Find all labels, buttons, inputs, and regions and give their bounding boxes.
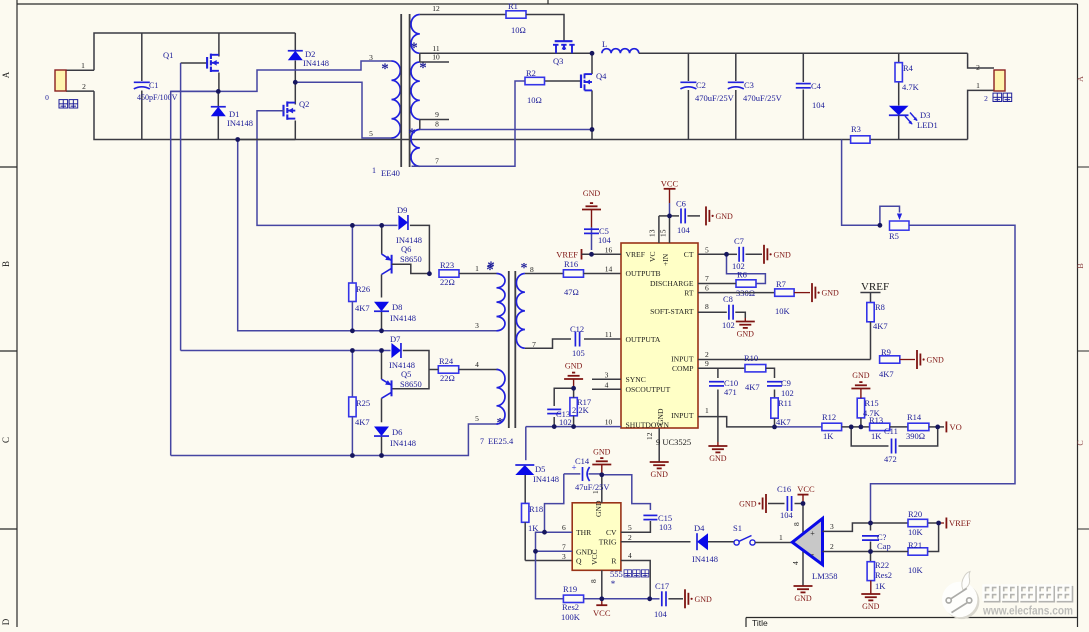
- wire Q5 collector to D6: [381, 398, 383, 422]
- wire CT to R6: [727, 254, 766, 283]
- power GND port C16: [765, 494, 767, 513]
- wire R13 to R14: [890, 426, 908, 428]
- svg-text:CV: CV: [606, 528, 617, 537]
- svg-text:INPUT: INPUT: [671, 411, 694, 420]
- resistor R13: [870, 423, 890, 430]
- resistor R15: [857, 398, 864, 418]
- transformer T2 EE25.4: [497, 274, 506, 331]
- resistor R22: [870, 552, 872, 562]
- svg-text:4: 4: [791, 561, 800, 565]
- svg-text:INPUT: INPUT: [671, 355, 694, 364]
- svg-text:R7: R7: [776, 279, 786, 289]
- svg-text:8: 8: [792, 522, 801, 526]
- svg-text:R22: R22: [875, 560, 889, 570]
- svg-text:3: 3: [830, 522, 834, 531]
- svg-text:1K: 1K: [875, 581, 886, 591]
- capacitor C6: [670, 215, 680, 217]
- wire pin4 stub: [592, 388, 621, 390]
- transistor Q6: [381, 225, 383, 254]
- svg-text:+: +: [810, 529, 815, 538]
- svg-text:Q2: Q2: [299, 99, 309, 109]
- wire opamp pin2: [823, 551, 871, 553]
- svg-text:9: 9: [705, 359, 709, 368]
- wire opamp pin4: [802, 550, 804, 586]
- svg-text:IN4148: IN4148: [227, 118, 253, 128]
- svg-text:10K: 10K: [908, 565, 924, 575]
- svg-text:102: 102: [559, 417, 572, 427]
- svg-text:GND: GND: [737, 330, 755, 339]
- capacitor C3: [735, 53, 737, 81]
- svg-text:*: *: [381, 61, 389, 77]
- svg-text:13: 13: [648, 229, 657, 237]
- svg-text:2: 2: [976, 63, 980, 72]
- wire Q2 gate drive: [257, 111, 352, 226]
- svg-text:16: 16: [605, 245, 613, 254]
- svg-text:R6: R6: [737, 270, 747, 280]
- svg-text:8: 8: [530, 265, 534, 274]
- wire pin8 to C8: [698, 311, 727, 313]
- wire mid rail to EE40 pin 3: [171, 61, 392, 91]
- svg-text:4: 4: [475, 360, 479, 369]
- svg-text:102: 102: [722, 320, 735, 330]
- resistor R16: [563, 270, 583, 277]
- wire output right loop to connector: [968, 53, 994, 68]
- svg-text:105: 105: [572, 348, 585, 358]
- svg-text:9: 9: [435, 110, 439, 119]
- svg-text:4K7: 4K7: [355, 303, 370, 313]
- svg-text:C8: C8: [723, 294, 733, 304]
- svg-text:R24: R24: [439, 356, 454, 366]
- svg-text:LM358: LM358: [812, 571, 838, 581]
- power GND port C7: [763, 245, 765, 264]
- svg-text:7: 7: [435, 157, 439, 166]
- capacitor C17: [650, 598, 660, 600]
- svg-text:104: 104: [780, 510, 794, 520]
- svg-text:GND: GND: [593, 448, 611, 457]
- LED D3: [889, 106, 909, 116]
- wire R20-R21 join: [928, 523, 939, 552]
- svg-text:R21: R21: [908, 540, 922, 550]
- wire Q6 base: [392, 264, 430, 273]
- wire bottom drive rail: [171, 424, 498, 456]
- svg-text:Q5: Q5: [401, 369, 411, 379]
- svg-text:VCC: VCC: [661, 179, 679, 189]
- svg-text:102: 102: [781, 388, 794, 398]
- svg-text:14: 14: [605, 264, 613, 273]
- resistor R6: [736, 280, 756, 287]
- svg-text:GND: GND: [794, 594, 812, 603]
- svg-text:1: 1: [705, 406, 709, 415]
- wire EE40 pin11 to output node: [420, 52, 592, 54]
- svg-text:OSCOUTPUT: OSCOUTPUT: [626, 385, 671, 394]
- wire EE40 pin8 to Q4 source: [420, 129, 592, 131]
- svg-text:C12: C12: [570, 324, 584, 334]
- wire upper drive row: [352, 224, 397, 226]
- svg-text:R23: R23: [440, 260, 454, 270]
- svg-text:8: 8: [589, 579, 598, 583]
- svg-text:GND: GND: [739, 500, 757, 509]
- svg-text:VC: VC: [648, 251, 657, 262]
- svg-text:470uF/25V: 470uF/25V: [743, 93, 783, 103]
- svg-text:7: 7: [705, 274, 709, 283]
- resistor R18: [524, 475, 526, 503]
- svg-text:GND: GND: [927, 356, 945, 365]
- op-amp U3 LM358: [792, 519, 822, 565]
- svg-text:C6: C6: [676, 199, 686, 209]
- svg-text:VREF: VREF: [861, 281, 889, 293]
- svg-text:1: 1: [372, 166, 376, 175]
- wire pin2 to R21: [871, 551, 909, 553]
- power GND port R7: [794, 292, 810, 294]
- wire C12 to pin11: [584, 338, 621, 340]
- wire lower drive row (D7): [181, 350, 353, 352]
- power VCC port 555: [601, 599, 603, 605]
- svg-text:VREF: VREF: [949, 518, 971, 528]
- svg-text:C11: C11: [884, 426, 898, 436]
- svg-text:R12: R12: [822, 412, 836, 422]
- inductor L: [602, 49, 639, 54]
- svg-text:DISCHARGE: DISCHARGE: [650, 279, 694, 288]
- svg-text:S8650: S8650: [400, 254, 422, 264]
- svg-text:GND: GND: [695, 595, 713, 604]
- svg-text:4K7: 4K7: [355, 417, 370, 427]
- svg-text:7: 7: [562, 543, 566, 552]
- diode D1: [217, 91, 219, 106]
- capacitor C?: [870, 523, 872, 531]
- svg-text:10: 10: [605, 418, 613, 427]
- svg-text:R8: R8: [875, 302, 885, 312]
- wire Q2 source to EE40 pin3 row: [238, 139, 296, 141]
- svg-text:SYNC: SYNC: [626, 375, 646, 384]
- svg-text:10Ω: 10Ω: [511, 25, 526, 35]
- svg-text:R10: R10: [744, 353, 758, 363]
- svg-text:TRIG: TRIG: [599, 538, 617, 547]
- transistor Q4: [591, 53, 593, 74]
- svg-text:9 UC3525: 9 UC3525: [656, 437, 691, 447]
- transistor Q3: [553, 41, 575, 53]
- svg-text:2: 2: [830, 542, 834, 551]
- wire output rail top: [639, 52, 968, 54]
- svg-text:RT: RT: [684, 288, 694, 297]
- svg-text:4K7: 4K7: [745, 382, 760, 392]
- wire THR jog to GND7 row: [536, 532, 573, 551]
- svg-text:EE25.4: EE25.4: [488, 436, 514, 446]
- svg-text:*: *: [487, 259, 495, 275]
- potentiometer R5: [890, 221, 910, 230]
- svg-text:10Ω: 10Ω: [527, 95, 542, 105]
- svg-text:IN4148: IN4148: [533, 474, 559, 484]
- svg-text:1: 1: [779, 533, 783, 542]
- svg-text:D7: D7: [390, 334, 400, 344]
- svg-text:6: 6: [705, 284, 709, 293]
- svg-text:1: 1: [475, 264, 479, 273]
- wire pin6 RT to R7: [698, 292, 775, 294]
- svg-text:4: 4: [628, 551, 632, 560]
- svg-text:www.elecfans.com: www.elecfans.com: [982, 604, 1073, 618]
- svg-text:1K: 1K: [871, 431, 882, 441]
- svg-text:1: 1: [976, 81, 980, 90]
- wire C14 right loop to C15: [602, 475, 651, 510]
- svg-text:R25: R25: [356, 398, 370, 408]
- resistor R1: [506, 11, 526, 18]
- svg-text:7: 7: [480, 437, 484, 446]
- svg-text:GND: GND: [565, 362, 583, 371]
- svg-text:15: 15: [659, 229, 668, 237]
- wire Q6 collector to D8: [381, 275, 383, 298]
- capacitor C9: [766, 368, 775, 378]
- svg-text:D3: D3: [920, 110, 930, 120]
- resistor R7: [775, 289, 794, 296]
- svg-text:4K7: 4K7: [879, 369, 894, 379]
- capacitor C15: [643, 514, 657, 516]
- svg-text:5: 5: [475, 414, 479, 423]
- svg-text:D6: D6: [392, 427, 402, 437]
- capacitor C7: [727, 253, 738, 255]
- svg-text:Title: Title: [752, 618, 768, 627]
- wire input outline loop: [94, 33, 295, 70]
- svg-text:4K7: 4K7: [873, 321, 888, 331]
- power GND port C17: [684, 589, 686, 608]
- svg-text:Q3: Q3: [553, 56, 563, 66]
- capacitor C16: [795, 503, 804, 505]
- svg-text:R20: R20: [908, 509, 922, 519]
- svg-text:C4: C4: [811, 81, 822, 91]
- svg-text:C: C: [1, 437, 11, 443]
- wire VREF to pin16: [582, 253, 622, 255]
- svg-text:C14: C14: [575, 456, 590, 466]
- svg-text:GND: GND: [852, 371, 870, 380]
- wire EE40 pin9 stub: [420, 119, 449, 121]
- wire S1 to opamp: [755, 542, 792, 544]
- transistor Q1: [218, 33, 220, 57]
- op IC U2 555: [572, 503, 621, 571]
- wire R5 to comparator loop: [871, 225, 1016, 523]
- wire 555 pin2 TRIG to D4: [621, 541, 691, 543]
- resistor R3: [851, 136, 870, 143]
- wire R19 to VCC node: [584, 598, 650, 600]
- wire R2 to EE40 pin7: [412, 81, 526, 166]
- wire pin3 row: [352, 330, 496, 332]
- wire EE25.4 pin7 to C12: [525, 339, 571, 348]
- diode D6: [374, 427, 389, 437]
- svg-text:R19: R19: [563, 584, 577, 594]
- wire R3 branch to R5: [842, 140, 880, 226]
- wire R12 to R13: [842, 426, 870, 428]
- svg-text:GND: GND: [583, 189, 601, 198]
- transistor Q5: [381, 351, 383, 380]
- watermark text: [985, 587, 999, 601]
- ground C8: [744, 318, 746, 322]
- svg-text:C2: C2: [696, 80, 706, 90]
- wire R18 to Q row: [525, 560, 572, 562]
- svg-text:R26: R26: [356, 284, 370, 294]
- resistor R21: [908, 548, 928, 555]
- svg-text:VCC: VCC: [797, 484, 815, 494]
- svg-text:C1: C1: [149, 81, 158, 90]
- svg-text:D5: D5: [535, 464, 545, 474]
- svg-text:VCC: VCC: [593, 608, 611, 618]
- wire pin12 to ground: [658, 428, 660, 462]
- resistor R25: [351, 351, 353, 398]
- svg-text:VREF: VREF: [556, 249, 578, 259]
- svg-text:2: 2: [628, 533, 632, 542]
- wire EE25.4 sec top to R16: [525, 273, 564, 275]
- svg-text:Q4: Q4: [596, 71, 607, 81]
- connector P1 端子: [55, 70, 66, 91]
- diode D4: [697, 533, 708, 550]
- resistor R17: [570, 398, 577, 416]
- title block: [746, 617, 1078, 619]
- svg-text:GND: GND: [862, 602, 880, 611]
- wire 555 pin8 bottom: [601, 570, 603, 599]
- svg-text:47uF/25V: 47uF/25V: [575, 482, 610, 492]
- svg-text:IN4148: IN4148: [692, 554, 718, 564]
- resistor R24: [438, 366, 458, 373]
- svg-text:Cap: Cap: [877, 541, 891, 551]
- power VO port: [945, 421, 947, 432]
- capacitor C13: [553, 417, 555, 427]
- svg-text:GND: GND: [774, 250, 792, 259]
- svg-text:D4: D4: [694, 523, 705, 533]
- wire Q1 gate drive: [180, 63, 182, 351]
- capacitor C10: [717, 368, 719, 378]
- svg-text:471: 471: [724, 387, 737, 397]
- wire pin3 stub: [592, 378, 621, 380]
- svg-text:2: 2: [984, 94, 988, 103]
- svg-text:R14: R14: [907, 412, 922, 422]
- svg-text:R5: R5: [889, 231, 899, 241]
- svg-text:47Ω: 47Ω: [564, 287, 579, 297]
- svg-text:C7: C7: [734, 236, 744, 246]
- resistor R11: [771, 398, 778, 418]
- wire R24 to EE25.4 pin4: [459, 369, 498, 371]
- wire opamp pin3: [823, 523, 871, 531]
- svg-text:D9: D9: [397, 205, 407, 215]
- svg-text:3: 3: [562, 552, 566, 561]
- svg-text:GND: GND: [716, 212, 734, 221]
- svg-text:C: C: [1076, 440, 1085, 445]
- svg-text:3: 3: [369, 53, 373, 62]
- svg-text:11: 11: [605, 330, 612, 339]
- switch S1: [734, 540, 739, 545]
- resistor R9: [880, 356, 900, 363]
- svg-text:Q6: Q6: [401, 244, 411, 254]
- wire Q1 source drive: [171, 91, 219, 455]
- wire R6 to pin7: [698, 283, 736, 285]
- resistor R20: [908, 519, 928, 526]
- svg-text:*: *: [611, 579, 616, 589]
- wire pin9 COMP to R10: [698, 367, 745, 369]
- svg-text:R4: R4: [903, 63, 914, 73]
- svg-text:3: 3: [605, 370, 609, 379]
- capacitor C14: [564, 473, 581, 475]
- svg-text:S8650: S8650: [400, 379, 422, 389]
- svg-text:Q: Q: [576, 557, 582, 566]
- capacitor C11 bypass: [851, 427, 888, 446]
- svg-text:2: 2: [705, 350, 709, 359]
- svg-text:IN4148: IN4148: [390, 438, 416, 448]
- svg-text:R9: R9: [881, 347, 891, 357]
- svg-text:EE40: EE40: [381, 168, 400, 178]
- svg-text:4: 4: [605, 380, 609, 389]
- resistor R8: [870, 293, 872, 303]
- svg-text:390Ω: 390Ω: [906, 431, 925, 441]
- diode D9: [398, 215, 408, 230]
- op IC U1 UC3525: [621, 243, 698, 428]
- capacitor C4: [802, 53, 804, 82]
- svg-text:GND: GND: [651, 470, 669, 479]
- svg-text:THR: THR: [576, 528, 592, 537]
- svg-text:R2: R2: [526, 68, 536, 78]
- svg-text:Res2: Res2: [562, 602, 579, 612]
- svg-text:12: 12: [645, 432, 654, 440]
- resistor R19: [563, 595, 583, 602]
- svg-text:IN4148: IN4148: [303, 58, 329, 68]
- svg-text:VCC: VCC: [590, 549, 599, 565]
- connector P2 端子: [994, 70, 1005, 91]
- svg-text:OUTPUTA: OUTPUTA: [626, 335, 661, 344]
- capacitor C12: [574, 332, 576, 347]
- svg-text:450pF/100V: 450pF/100V: [137, 93, 178, 102]
- svg-text:104: 104: [812, 100, 826, 110]
- svg-text:2.2K: 2.2K: [572, 405, 590, 415]
- wire 555 top pin to C14 node: [601, 475, 603, 503]
- wire opamp pin8 VCC: [802, 504, 804, 536]
- wire 555 pin4 loop: [621, 561, 650, 599]
- svg-text:C9: C9: [781, 378, 791, 388]
- svg-text:4K7: 4K7: [776, 417, 791, 427]
- resistor R12: [822, 423, 842, 430]
- svg-text:VREF: VREF: [626, 250, 645, 259]
- svg-text:10K: 10K: [908, 527, 924, 537]
- ground opamp pin4: [794, 585, 813, 587]
- svg-text:SOFT-START: SOFT-START: [650, 307, 694, 316]
- svg-text:B: B: [1, 261, 11, 267]
- resistor R23: [439, 270, 459, 277]
- svg-text:+IN: +IN: [661, 253, 670, 266]
- capacitor C8: [728, 305, 730, 320]
- svg-text:CT: CT: [684, 250, 694, 259]
- wire pin10 SHUTDOWN row: [526, 426, 621, 428]
- transistor Q2: [294, 82, 296, 104]
- resistor R4: [898, 53, 900, 62]
- wire comp out row: [775, 426, 822, 428]
- svg-text:R18: R18: [529, 504, 543, 514]
- svg-text:470uF/25V: 470uF/25V: [695, 93, 735, 103]
- svg-text:1K: 1K: [823, 431, 834, 441]
- wire opamp out node up: [871, 522, 939, 524]
- wire D4 to S1: [708, 541, 734, 543]
- svg-text:Res2: Res2: [875, 570, 892, 580]
- wire R16 to pin14: [584, 273, 622, 275]
- wire R14 to VO: [929, 426, 944, 428]
- wire GND7 to bottom rail: [536, 551, 564, 599]
- diode D5: [525, 427, 527, 461]
- capacitor C2: [687, 53, 689, 81]
- svg-text:22Ω: 22Ω: [440, 277, 455, 287]
- svg-text:2: 2: [82, 82, 86, 91]
- svg-text:103: 103: [659, 522, 672, 532]
- resistor R26: [351, 225, 353, 283]
- svg-text:GND: GND: [709, 454, 727, 463]
- svg-text:4.7K: 4.7K: [863, 408, 881, 418]
- svg-text:GND: GND: [822, 289, 840, 298]
- svg-text:104: 104: [654, 609, 668, 619]
- watermark logo: [944, 584, 979, 619]
- wire pin5 CT: [698, 253, 727, 255]
- svg-text:B: B: [1076, 263, 1085, 268]
- svg-text:12: 12: [432, 4, 440, 13]
